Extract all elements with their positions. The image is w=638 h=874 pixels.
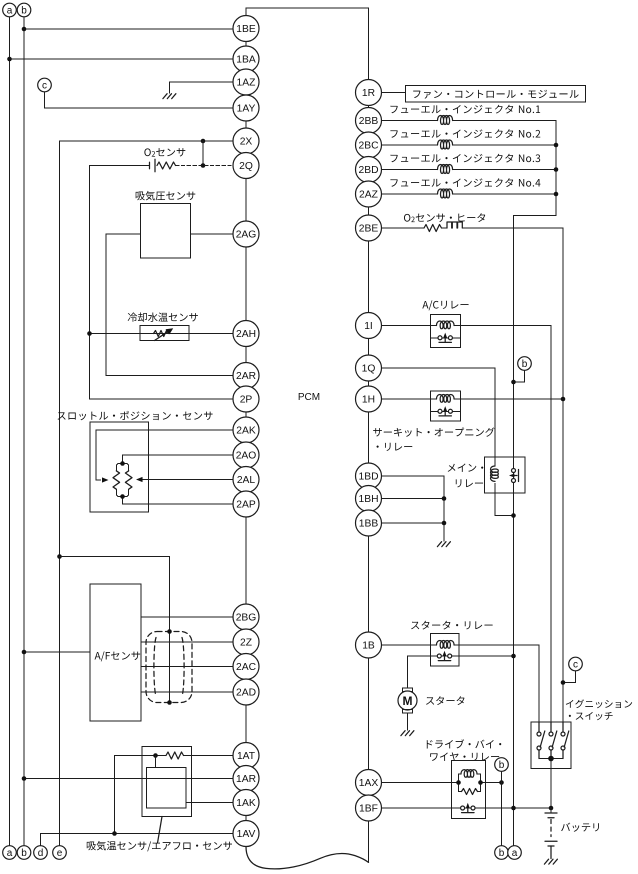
junction rail b / 1BE — [22, 27, 27, 32]
wire map sensor to 2AR — [106, 234, 233, 376]
label drive-by-wire relay line2 — [430, 752, 499, 761]
ignition switch contacts — [538, 722, 540, 732]
pin PCM 1AX — [356, 770, 382, 796]
svg-text:2AZ: 2AZ — [359, 190, 378, 201]
wire motor to ground — [407, 713, 409, 730]
svg-text:1AY: 1AY — [237, 104, 256, 115]
label coolant temp sensor — [128, 312, 198, 321]
pin PCM 2BE — [356, 215, 382, 241]
wire 1BB — [382, 522, 445, 524]
wire 2BE heater — [382, 227, 425, 229]
junction starter contact — [511, 654, 516, 659]
A/C relay contact — [431, 337, 461, 339]
junction ignition switch common — [548, 756, 554, 762]
label starter relay — [411, 621, 492, 630]
svg-text:2BE: 2BE — [359, 224, 379, 235]
potentiometer TPS left branch — [116, 464, 122, 471]
drive-by-wire contact — [461, 806, 465, 810]
fuel injector No.2 coil wire — [382, 144, 438, 146]
svg-text:2AH: 2AH — [236, 329, 256, 340]
resistor O2 sensor — [157, 162, 176, 169]
wire 1AK — [186, 802, 233, 804]
pin PCM 1BD — [356, 463, 382, 489]
drive-by-wire resistor branch — [459, 783, 462, 792]
wire 2X-2Q link — [202, 141, 204, 166]
junction rail e / shield — [57, 554, 62, 559]
pin PCM 2AP — [233, 491, 259, 517]
coolant temp sensor box — [140, 326, 189, 341]
airflow sensor inner box — [147, 768, 187, 809]
svg-text:2BB: 2BB — [359, 116, 379, 127]
svg-text:1BD: 1BD — [358, 472, 378, 483]
wire 1BA to rail a — [10, 58, 234, 60]
pin PCM 2X — [233, 128, 259, 154]
A/C relay coil — [437, 321, 455, 329]
battery cells — [545, 812, 557, 814]
node d (bottom) — [34, 846, 48, 860]
svg-text:c: c — [573, 660, 578, 671]
starter relay coil — [437, 641, 455, 649]
svg-text:2AD: 2AD — [236, 688, 256, 699]
throttle position sensor box — [90, 422, 149, 512]
resistor airflow sensor — [166, 752, 184, 759]
wire 2BG — [141, 616, 233, 618]
svg-text:2P: 2P — [240, 395, 253, 406]
svg-text:2AL: 2AL — [237, 475, 256, 486]
pin PCM 2AH — [233, 321, 259, 347]
junction injector No.3 — [554, 167, 559, 172]
ignition switch box — [531, 722, 571, 769]
wire battery top — [550, 808, 552, 813]
svg-text:1AX: 1AX — [359, 778, 379, 789]
junction 1AT / 1AV — [112, 831, 117, 836]
label main relay line2 — [456, 479, 483, 487]
wire PCM outline top (1BE to 1R) — [246, 8, 369, 80]
svg-text:1B: 1B — [362, 641, 375, 652]
svg-text:c: c — [42, 81, 47, 92]
svg-text:1AT: 1AT — [237, 751, 256, 762]
svg-text:1AR: 1AR — [236, 774, 256, 785]
svg-text:2Z: 2Z — [240, 638, 252, 649]
pin PCM 2AR — [233, 363, 259, 389]
pin PCM 1Q — [356, 355, 382, 381]
injector No.3 coil — [438, 165, 453, 174]
wire 1AT drop to inner box — [155, 756, 157, 768]
wire starter relay contact — [408, 655, 514, 657]
junction c tap — [561, 680, 566, 685]
pin PCM 2BB — [356, 108, 382, 134]
label drive-by-wire relay line1 — [427, 739, 502, 748]
svg-text:b: b — [21, 848, 27, 859]
wire PCM left spine — [245, 16, 247, 847]
junction 2Q tap — [201, 163, 206, 168]
main relay coil — [491, 466, 499, 481]
svg-text:M: M — [403, 694, 413, 708]
fuel injector No.1 coil wire — [382, 120, 438, 122]
junction TPS bottom node — [120, 494, 125, 499]
wire 1H — [382, 398, 437, 400]
heater coil — [447, 222, 462, 228]
junction shield top — [167, 629, 172, 634]
svg-text:d: d — [38, 848, 44, 859]
wire 1AT — [184, 755, 234, 757]
svg-text:2BC: 2BC — [358, 141, 379, 152]
pin PCM 1BA — [233, 46, 259, 72]
node c (ignition) — [569, 657, 583, 671]
A/C relay box — [431, 315, 461, 348]
junction 1BF / common — [511, 806, 516, 811]
wire PCM right spine — [368, 93, 370, 863]
starter relay contact — [437, 654, 441, 658]
junction 2X tap — [201, 139, 206, 144]
circuit opening relay box — [431, 391, 461, 421]
svg-text:2AC: 2AC — [236, 662, 257, 673]
junction main relay output — [511, 513, 516, 518]
wire main relay coil out — [495, 484, 514, 516]
pin PCM 2Z — [233, 629, 259, 655]
wire to starter motor — [407, 656, 409, 688]
label starter motor — [426, 696, 464, 705]
svg-text:b: b — [499, 760, 505, 771]
label circuit opening relay line2 — [377, 443, 413, 451]
node a (bottom right) — [508, 846, 522, 860]
wire shield drain — [60, 557, 170, 703]
junction shield bottom — [167, 700, 172, 705]
wire c to 1AY — [45, 92, 234, 108]
ground battery — [544, 859, 557, 864]
wire 1AZ to ground — [170, 82, 234, 93]
node c (top) — [38, 78, 52, 92]
pin PCM 1B — [356, 632, 382, 658]
pin PCM 2BC — [356, 132, 382, 158]
pin PCM 2P — [233, 386, 259, 412]
wire 2AK wiper — [96, 430, 233, 480]
wire 2AP — [123, 497, 234, 505]
label fuel injector No.1 — [390, 105, 540, 114]
pin PCM 1R — [356, 80, 382, 106]
wire rail e — [59, 141, 61, 846]
starter motor brush top — [403, 688, 413, 692]
node b (bottom right) — [495, 846, 509, 860]
label O2 sensor heater — [404, 213, 485, 222]
pin PCM 2AO — [233, 442, 259, 468]
svg-text:2BD: 2BD — [358, 165, 378, 176]
fuel injector No.4 coil wire — [382, 193, 438, 195]
wire 2AD — [141, 691, 233, 693]
wire 1AR to rail b — [24, 778, 233, 780]
node e (bottom) — [53, 846, 67, 860]
label battery — [561, 823, 599, 832]
wire ignition switch bus — [539, 758, 563, 760]
label O2 sensor — [144, 148, 185, 157]
shield A/F cable — [146, 632, 192, 703]
svg-text:1BA: 1BA — [236, 55, 256, 66]
wire 2Q dashed — [176, 165, 234, 167]
pin PCM 1AY — [233, 95, 259, 121]
pin PCM 2AG — [233, 221, 259, 247]
pin PCM 2Q — [233, 153, 259, 179]
airflow sensor outer box — [142, 747, 192, 817]
pin PCM 1AZ — [233, 69, 259, 95]
wire 1BD bus — [382, 476, 445, 541]
injector No.2 coil — [438, 140, 453, 149]
circuit opening relay contact — [431, 410, 461, 412]
svg-text:e: e — [57, 848, 63, 859]
thermistor coolant sensor — [154, 331, 169, 337]
svg-text:a: a — [512, 848, 518, 859]
wire rail a — [9, 17, 11, 846]
node b (top) — [17, 3, 31, 17]
pin PCM 2AD — [233, 679, 259, 705]
junction DBW right — [478, 780, 483, 785]
svg-text:2AP: 2AP — [236, 500, 256, 511]
junction rail O2 / 2AH — [87, 331, 92, 336]
battery cell O2 sensor — [150, 159, 156, 172]
junction DBW output — [499, 780, 504, 785]
pin PCM 1BH — [356, 486, 382, 512]
junction 1H / heater rail — [561, 397, 566, 402]
starter motor M — [398, 691, 417, 710]
svg-text:b: b — [522, 359, 528, 370]
junction 1BH bus — [442, 496, 447, 501]
svg-text:b: b — [21, 6, 27, 17]
junction injector No.4 — [554, 192, 559, 197]
node a (top) — [3, 3, 17, 17]
junction DBW left — [456, 780, 461, 785]
wire 2AO — [123, 455, 234, 464]
pin PCM 1H — [356, 386, 382, 412]
wire injector common — [514, 121, 557, 846]
wire b DBW vertical — [501, 771, 503, 845]
wire 1R to fan module — [382, 92, 406, 94]
wire 1Q to main relay — [382, 368, 496, 466]
main relay contact — [512, 469, 516, 473]
wire 2AG — [191, 233, 234, 235]
svg-text:2AK: 2AK — [236, 426, 256, 437]
label throttle position sensor — [58, 411, 213, 420]
svg-text:1Q: 1Q — [362, 364, 376, 375]
starter relay box — [431, 634, 460, 667]
pin PCM 1BE — [233, 16, 259, 42]
label fuel injector No.2 — [390, 129, 540, 138]
wire A/F to rail b — [24, 651, 90, 653]
svg-text:1AK: 1AK — [236, 798, 256, 809]
label ignition switch line1 — [566, 699, 632, 708]
junction 1AT / inner sensor — [153, 753, 158, 758]
junction rail b / 1AR — [22, 776, 27, 781]
pin PCM 1AV — [233, 821, 259, 847]
svg-text:1I: 1I — [364, 321, 373, 332]
junction rail b / A/F — [22, 650, 27, 655]
wire rail b — [23, 17, 25, 846]
junction b tap — [511, 380, 516, 385]
fan control module box — [406, 86, 586, 103]
svg-text:2BG: 2BG — [236, 613, 257, 624]
label main relay line1 — [448, 464, 484, 472]
svg-text:1H: 1H — [362, 395, 375, 406]
svg-text:2Q: 2Q — [239, 161, 253, 172]
wire 1BE to rail b — [24, 28, 233, 30]
wire 2AH — [90, 333, 234, 335]
junction 1BF / battery — [549, 806, 554, 811]
wire 1BH — [382, 498, 445, 500]
label A/C relay — [422, 300, 468, 310]
wire 1B — [382, 644, 437, 646]
junction injector No.2 — [554, 143, 559, 148]
wire 1I — [382, 325, 437, 327]
node b (bottom left) — [17, 846, 31, 860]
svg-text:b: b — [499, 848, 505, 859]
svg-text:2AR: 2AR — [236, 371, 256, 382]
pin PCM 2AK — [233, 417, 259, 443]
pin PCM 1AK — [233, 790, 259, 816]
injector No.1 coil — [438, 116, 453, 125]
wire 1AV to node d — [41, 834, 234, 846]
svg-text:1AZ: 1AZ — [237, 78, 256, 89]
ground starter motor — [401, 731, 414, 736]
injector No.4 coil — [438, 189, 453, 198]
svg-text:PCM: PCM — [298, 392, 320, 403]
svg-text:1BB: 1BB — [359, 519, 379, 530]
svg-text:2AO: 2AO — [236, 451, 257, 462]
svg-text:1BH: 1BH — [358, 494, 378, 505]
junction TPS top node — [120, 461, 125, 466]
label pointer airflow sensor — [158, 817, 163, 844]
svg-text:2X: 2X — [240, 137, 253, 148]
label fuel injector No.4 — [390, 178, 540, 187]
svg-text:1BF: 1BF — [359, 804, 378, 815]
pin PCM 1I — [356, 313, 382, 339]
circuit opening relay coil — [437, 395, 455, 403]
pin PCM 2BD — [356, 157, 382, 183]
starter motor brush bottom — [403, 710, 413, 714]
pin PCM 2AC — [233, 654, 259, 680]
wire 1BF — [382, 807, 552, 809]
junction rail a / 1BA — [7, 57, 12, 62]
svg-text:a: a — [7, 848, 13, 859]
wire 1AX — [382, 782, 459, 784]
label A/F sensor — [95, 651, 141, 661]
main relay box — [485, 457, 526, 493]
wire 2Z — [141, 641, 233, 643]
label ignition switch line2 — [569, 712, 613, 720]
label intake pressure sensor — [136, 191, 196, 200]
drive-by-wire coil branch — [459, 774, 462, 783]
junction 1BB bus — [442, 521, 447, 526]
svg-text:1R: 1R — [362, 88, 375, 99]
svg-text:a: a — [7, 6, 13, 17]
pin PCM 1BB — [356, 510, 382, 536]
node a (bottom left) — [3, 846, 17, 860]
wire 2X to rail e — [60, 140, 234, 142]
label circuit opening relay line1 — [373, 427, 494, 436]
wire 2AL wiper — [143, 479, 233, 481]
resistor O2 heater — [424, 225, 442, 232]
pin PCM 2AZ — [356, 181, 382, 207]
label fan control module — [413, 90, 578, 99]
pin PCM 1BF — [356, 795, 382, 821]
wire 2AC — [141, 666, 233, 668]
wire c tap — [563, 671, 576, 683]
pin PCM 2BG — [233, 604, 259, 630]
intake pressure sensor box — [141, 204, 191, 259]
wire b tap — [514, 370, 525, 382]
pin PCM 2AL — [233, 467, 259, 493]
fuel injector No.3 coil wire — [382, 169, 438, 171]
pin PCM 1AT — [233, 743, 259, 769]
ground PCM bus — [437, 542, 450, 547]
svg-text:1AV: 1AV — [237, 829, 256, 840]
svg-text:2AG: 2AG — [236, 230, 257, 241]
wire rail O2/2P — [90, 166, 234, 400]
label airflow sensor — [87, 841, 232, 851]
node b (DBW tap) — [495, 758, 509, 772]
drive-by-wire relay box — [452, 761, 486, 819]
wire O2 sensor left — [90, 165, 149, 167]
ground 1AZ — [163, 94, 176, 99]
label fuel injector No.3 — [390, 154, 540, 163]
A/F sensor box — [90, 584, 141, 721]
svg-text:1BE: 1BE — [236, 24, 256, 35]
pin PCM 1AR — [233, 766, 259, 792]
node b (main relay tap) — [518, 357, 532, 371]
wire PCM bottom S-curve (1AV to 1BF) — [246, 847, 369, 869]
potentiometer TPS right branch — [123, 464, 129, 471]
